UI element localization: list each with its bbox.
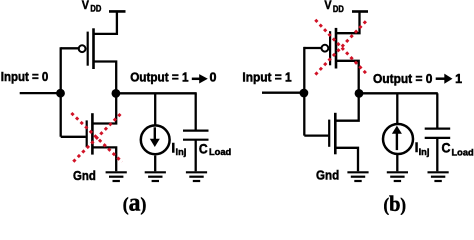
svg-text:Gnd: Gnd <box>316 168 339 183</box>
svg-text:Load: Load <box>209 147 232 157</box>
wire input lead <box>20 92 61 94</box>
ground under NMOS <box>106 172 127 181</box>
wire input column vertical <box>60 47 62 137</box>
capacitor C_Load top plate <box>183 130 209 132</box>
wire output to capacitor <box>195 93 197 130</box>
wire output to current source right <box>396 93 398 124</box>
transistor M4 NMOS channel bar <box>334 113 337 155</box>
current source I_inj circle right <box>383 124 413 154</box>
current source arrow up <box>392 126 402 151</box>
VDD label V_DD <box>82 0 102 14</box>
svg-text:Input = 1: Input = 1 <box>242 70 291 84</box>
node output junction dot <box>112 89 121 98</box>
wire VDD to PMOS source right <box>336 12 360 34</box>
wire input lead right <box>262 92 304 94</box>
wire NMOS drain to output node <box>92 93 116 123</box>
wire PMOS drain to output node <box>94 62 117 94</box>
transistor M3 PMOS gate bar <box>329 31 331 65</box>
wire PMOS drain to output node right <box>336 61 359 94</box>
svg-text:DD: DD <box>90 4 101 14</box>
ground under NMOS right <box>347 172 368 181</box>
svg-text:Load: Load <box>452 148 474 158</box>
wire current source to ground right <box>396 155 398 171</box>
output transition arrow <box>192 74 208 83</box>
wire current source to ground <box>154 156 156 172</box>
svg-text:Output = 1: Output = 1 <box>130 71 188 85</box>
svg-text:0: 0 <box>210 71 217 85</box>
capacitor label C_Load right <box>442 141 474 158</box>
VDD label V_DD right <box>324 0 344 14</box>
output transition arrow right <box>436 74 453 84</box>
svg-text:inj: inj <box>176 147 187 157</box>
wire NMOS source to ground <box>92 147 116 171</box>
transistor M2 NMOS channel bar <box>91 113 94 154</box>
svg-text:V: V <box>82 0 90 12</box>
transistor M2 NMOS gate bar <box>86 120 88 147</box>
transistor M1 PMOS channel bar <box>92 28 95 69</box>
svg-text:C: C <box>442 141 451 156</box>
svg-text:Output = 0: Output = 0 <box>373 72 432 86</box>
ground under capacitor <box>186 172 207 181</box>
transistor M1 PMOS gate bar <box>87 32 89 66</box>
current source I_inj circle <box>141 125 170 154</box>
wire PMOS gate to input column right <box>304 47 322 49</box>
wire input column vertical right <box>303 47 305 136</box>
fault X over NMOS <box>71 113 122 163</box>
capacitor C_Load bottom plate right <box>425 137 451 139</box>
wire capacitor to ground right <box>436 138 438 172</box>
svg-text:Input = 0: Input = 0 <box>1 70 49 84</box>
wire NMOS gate <box>61 136 86 138</box>
wire VDD to PMOS source <box>93 11 117 34</box>
capacitor C_Load bottom plate <box>183 139 209 141</box>
svg-text:V: V <box>324 0 332 12</box>
svg-text:Gnd: Gnd <box>73 168 96 183</box>
wire NMOS gate right <box>304 134 328 136</box>
transistor M3 PMOS channel bar <box>335 28 338 69</box>
capacitor C_Load top plate right <box>425 128 451 130</box>
wire output to capacitor right <box>436 93 438 129</box>
wire output bus right <box>359 92 438 94</box>
wire PMOS gate to input column <box>61 47 80 49</box>
fault X over PMOS <box>315 20 367 75</box>
transistor M3 PMOS gate bubble <box>322 45 329 52</box>
current source arrow down <box>150 127 160 147</box>
VDD rail bar right <box>352 10 368 13</box>
wire NMOS drain to output node right <box>335 93 358 120</box>
svg-text:inj: inj <box>419 147 430 157</box>
svg-text:C: C <box>199 141 208 156</box>
node input junction dot right <box>300 89 309 98</box>
ground under current source right <box>387 172 408 181</box>
node output junction dot right <box>355 89 364 98</box>
node input junction dot <box>56 89 65 98</box>
capacitor label C_Load <box>199 141 232 157</box>
wire output to current source <box>154 93 156 125</box>
ground under current source <box>145 172 166 181</box>
transistor M4 NMOS gate bar <box>328 120 330 147</box>
current source label I_inj <box>171 140 186 157</box>
svg-text:DD: DD <box>333 4 344 14</box>
current source label I_inj right <box>415 140 430 157</box>
transistor M1 PMOS gate bubble <box>79 45 86 52</box>
VDD rail bar <box>109 10 126 13</box>
wire output bus <box>116 92 197 94</box>
ground under capacitor right <box>428 172 449 181</box>
wire capacitor to ground <box>195 140 197 172</box>
wire NMOS source to ground right <box>335 148 358 172</box>
svg-text:1: 1 <box>455 72 462 86</box>
